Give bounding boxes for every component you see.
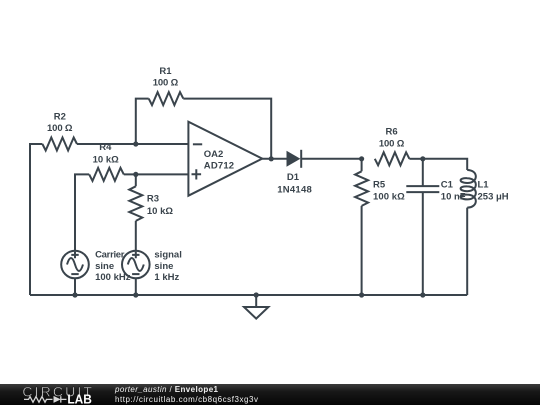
- diode D1 cathode bar: [300, 150, 302, 168]
- wire V1 bottom: [74, 278, 76, 295]
- junction node output: [269, 156, 274, 161]
- svg-text:10 kΩ: 10 kΩ: [93, 154, 119, 165]
- wire diode to node: [301, 158, 361, 160]
- svg-text:R1: R1: [159, 66, 172, 77]
- resistor R5: [355, 171, 368, 206]
- svg-text:1N4148: 1N4148: [277, 185, 312, 196]
- wire op-amp output: [262, 158, 287, 160]
- resistor R6: [375, 152, 410, 165]
- junction rail V1: [72, 292, 77, 297]
- junction rail C1: [420, 292, 425, 297]
- svg-text:R5: R5: [373, 179, 386, 190]
- logo diode triangle: [54, 396, 61, 403]
- wire C1 top: [422, 159, 424, 186]
- wire to L1 top: [423, 159, 467, 170]
- junction node A (inverting): [133, 141, 138, 146]
- svg-text:100 Ω: 100 Ω: [379, 139, 405, 150]
- resistor R3: [129, 186, 142, 221]
- svg-text:L1: L1: [478, 179, 490, 190]
- svg-text:http://circuitlab.com/cb8q6csf: http://circuitlab.com/cb8q6csf3xg3v: [115, 395, 258, 404]
- ground symbol: [244, 307, 268, 319]
- svg-text:10 nF: 10 nF: [441, 192, 466, 203]
- svg-text:Carrier: Carrier: [95, 250, 125, 261]
- svg-text:sine: sine: [154, 261, 173, 272]
- source V2 plus: [132, 252, 139, 259]
- wire R6 exit: [409, 158, 422, 160]
- svg-text:R6: R6: [386, 126, 398, 137]
- resistor R2: [42, 138, 77, 151]
- wire R4 entry corner down to carrier source: [75, 174, 89, 250]
- svg-text:OA2: OA2: [204, 149, 224, 160]
- resistor R1: [149, 92, 184, 105]
- svg-text:R3: R3: [147, 193, 159, 204]
- junction node B (noninverting): [133, 172, 138, 177]
- source V2 sine: [128, 258, 144, 271]
- source V1 minus: [71, 273, 78, 275]
- wire C1 bottom: [422, 192, 424, 295]
- wire feedback loop left vertical: [136, 99, 149, 144]
- svg-text:10 kΩ: 10 kΩ: [147, 206, 173, 217]
- wire R5 bottom: [361, 206, 363, 295]
- resistor R4: [89, 168, 124, 181]
- svg-text:253 μH: 253 μH: [478, 192, 509, 203]
- svg-text:LAB: LAB: [67, 392, 92, 405]
- svg-text:signal: signal: [154, 250, 181, 261]
- svg-text:C1: C1: [441, 179, 454, 190]
- wire noninverting input: [124, 173, 189, 175]
- inductor L1 coil: [461, 170, 476, 208]
- wire V2 bottom: [135, 278, 137, 295]
- svg-text:porter_austin / Envelope1: porter_austin / Envelope1: [114, 385, 219, 394]
- junction rail ground: [254, 292, 259, 297]
- wire L1 bottom: [466, 208, 468, 295]
- junction rail R5: [359, 292, 364, 297]
- svg-text:R2: R2: [54, 111, 66, 122]
- source V2 minus: [132, 273, 139, 275]
- logo resistor-diode line: [24, 396, 67, 402]
- wire R2 left entry + left rail corner: [30, 144, 42, 295]
- svg-text:D1: D1: [287, 172, 300, 183]
- op-amp minus sign: [193, 143, 202, 145]
- junction node D1-R5-R6: [359, 156, 364, 161]
- svg-text:sine: sine: [95, 261, 114, 272]
- svg-text:100 kHz: 100 kHz: [95, 272, 131, 283]
- source V1 carrier circle: [61, 251, 89, 279]
- wire inverting input: [77, 143, 188, 145]
- capacitor C1 plates: [406, 186, 439, 192]
- wire R5 top: [361, 159, 363, 172]
- svg-text:100 Ω: 100 Ω: [47, 123, 73, 134]
- wire bottom rail: [30, 294, 467, 296]
- junction node R6-C1-L1: [420, 156, 425, 161]
- wire feedback loop right: [183, 99, 271, 159]
- svg-text:100 kΩ: 100 kΩ: [373, 192, 405, 203]
- wire R3 bottom to signal source: [135, 221, 137, 251]
- diode D1 triangle: [287, 151, 301, 167]
- svg-text:R4: R4: [99, 142, 112, 153]
- junction rail V2: [133, 292, 138, 297]
- source V1 plus: [71, 252, 78, 259]
- svg-text:1 kHz: 1 kHz: [154, 272, 179, 283]
- wire R3 top: [135, 174, 137, 186]
- op-amp U1 triangle: [188, 122, 262, 196]
- ground stem: [255, 295, 257, 307]
- op-amp plus sign: [192, 169, 202, 179]
- svg-text:100 Ω: 100 Ω: [153, 78, 179, 89]
- source V2 signal circle: [122, 251, 150, 279]
- source V1 sine: [67, 258, 83, 271]
- svg-text:AD712: AD712: [204, 160, 234, 171]
